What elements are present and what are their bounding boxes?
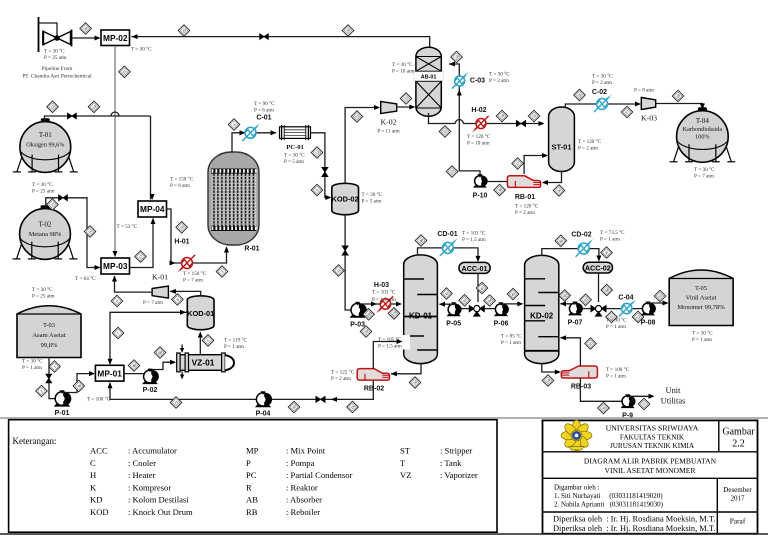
stream diamond 12	[311, 147, 323, 159]
stream diamond 52	[632, 311, 644, 323]
svg-text:1. Siti Nurhayati (0303118: 1. Siti Nurhayati (03031181419020)	[554, 492, 663, 500]
svg-text:Metana 98%: Metana 98%	[29, 231, 62, 238]
wire MP-01 to P-02	[124, 373, 144, 375]
svg-text:KD-01: KD-01	[409, 311, 433, 320]
wire K-02 to AB-01	[397, 106, 414, 108]
stream diamond 16b	[363, 309, 375, 321]
svg-text:T = 30 °C: T = 30 °C	[606, 317, 627, 324]
svg-text:Desember: Desember	[723, 486, 752, 494]
title university text	[606, 424, 699, 451]
svg-text:P = 2 atm: P = 2 atm	[592, 80, 612, 86]
svg-text:100%: 100%	[695, 134, 709, 141]
tank T-02 methane sphere	[13, 205, 78, 259]
svg-text:T = 85 °C: T = 85 °C	[501, 333, 522, 340]
title diagram name	[584, 457, 717, 476]
wire P-10 to C-03 to AB-01	[449, 64, 480, 175]
compressor K-02	[381, 102, 397, 114]
svg-text:CD-02: CD-02	[571, 232, 591, 239]
svg-text:T = 30 °C: T = 30 °C	[362, 191, 383, 198]
arrowhead into MP-02 right	[132, 34, 138, 39]
condensate outlet arrow VZ-01	[181, 372, 183, 377]
wire splitter to P-06	[485, 308, 496, 310]
svg-text:P-03: P-03	[350, 322, 365, 329]
label KOD-02 T/P	[362, 191, 383, 204]
wire MP-02 to MP-03	[114, 46, 116, 257]
wire RB-03 drain to P-9	[580, 378, 622, 401]
mix point MP-04	[138, 201, 167, 217]
stream diamond 40	[415, 235, 427, 247]
wire P-06 to KD-02	[501, 302, 522, 305]
title authors	[554, 484, 664, 509]
svg-text:K-03: K-03	[641, 114, 657, 123]
svg-text:Paraf: Paraf	[730, 517, 746, 526]
arrowhead into KOD-01 bottom	[198, 332, 203, 338]
stream diamond 7	[112, 327, 124, 339]
arrowhead up into C-03	[457, 90, 462, 96]
wire T-01 to MP-04	[45, 116, 151, 122]
arrowhead into KOD-02	[325, 195, 331, 200]
stream diamond 3b	[73, 380, 85, 392]
distillation column KD-01	[404, 255, 438, 364]
stream diamond 21	[170, 397, 182, 409]
title block frame	[543, 420, 758, 533]
arrowhead into K-03	[635, 101, 641, 106]
svg-text:P = 25 atm: P = 25 atm	[32, 188, 54, 194]
svg-text:P = 7 atm: P = 7 atm	[694, 173, 714, 179]
stream diamond 14	[88, 101, 100, 113]
arrowhead into K-02	[374, 105, 380, 110]
svg-text:T = 30 °C: T = 30 °C	[131, 46, 152, 53]
svg-text:T = 73,5 °C: T = 73,5 °C	[600, 229, 625, 236]
label Desember 2017	[723, 486, 752, 503]
svg-text:P = 6 atm: P = 6 atm	[170, 183, 190, 189]
svg-text:P = 1,5 atm: P = 1,5 atm	[372, 297, 396, 303]
svg-text:P = 1,5 atm: P = 1,5 atm	[378, 344, 402, 350]
svg-text:P = 2 atm: P = 2 atm	[515, 210, 535, 216]
svg-text:R: R	[246, 482, 252, 492]
stream diamond 8	[172, 294, 184, 306]
svg-text:T = 30 °C: T = 30 °C	[694, 166, 715, 173]
svg-text:P-06: P-06	[494, 321, 509, 328]
arrowhead into KD-02 right	[560, 301, 566, 306]
label T-02 T/P	[32, 286, 54, 299]
svg-text:: Stripper: : Stripper	[440, 446, 472, 456]
svg-text:Unit: Unit	[666, 386, 682, 395]
stream diamond 37	[512, 158, 524, 170]
heater H-02	[472, 116, 489, 133]
stripper ST-01	[549, 107, 575, 172]
svg-text:P-04: P-04	[256, 411, 271, 418]
svg-text:T = 30 °C: T = 30 °C	[592, 73, 613, 80]
wire P-05 to KD-01 reflux	[440, 303, 454, 304]
partial condenser PC-01	[280, 125, 311, 140]
wire KOD-01 to MP-01	[110, 312, 187, 364]
label CD-01 T/P	[462, 230, 486, 243]
compressor K-03	[641, 98, 655, 110]
svg-text:T = 64 °C: T = 64 °C	[75, 275, 96, 282]
mix point MP-02	[101, 30, 130, 46]
svg-text:: Heater: : Heater	[128, 470, 156, 480]
stream diamond 9b	[154, 347, 166, 359]
label Gambar 2.2	[722, 427, 755, 450]
label T-05 T/P	[692, 330, 713, 343]
svg-text:2.2: 2.2	[732, 439, 745, 450]
svg-text:Asam Asetat: Asam Asetat	[32, 332, 65, 339]
stream diamond 34	[496, 110, 508, 122]
wire RB-01 to P-10	[487, 181, 507, 183]
stream diamond 20	[288, 401, 300, 413]
wire KOD-02 bottoms to P-03	[345, 215, 351, 311]
label RB-03 T/P	[606, 366, 630, 379]
svg-text:P = 8 atm: P = 8 atm	[634, 88, 654, 94]
stream diamond 48	[601, 284, 613, 296]
arrowhead before H-03	[371, 301, 377, 306]
svg-text:VZ: VZ	[400, 470, 411, 480]
arrowhead into KOD-01 left	[180, 310, 186, 315]
stream diamond 10	[176, 222, 188, 234]
wire splitter to P-05	[460, 308, 470, 310]
svg-text:P-05: P-05	[446, 321, 461, 328]
arrowhead into KD-02 left	[517, 301, 523, 306]
svg-text:: Kolom Destilasi: : Kolom Destilasi	[128, 495, 189, 505]
mix point MP-03	[101, 258, 130, 274]
stream diamond 11	[333, 265, 345, 277]
wire MP-04 to H-01 to R-01	[167, 209, 227, 263]
svg-text:Pipeline From: Pipeline From	[42, 66, 74, 72]
svg-text:T = 30 °C: T = 30 °C	[44, 48, 65, 55]
svg-text:T = 90 °C: T = 90 °C	[254, 100, 275, 107]
accumulator ACC-02	[583, 262, 612, 273]
svg-text:Oksigen 99,6%: Oksigen 99,6%	[26, 142, 64, 149]
stream diamond 17b	[388, 308, 400, 320]
svg-text:P = 2 atm: P = 2 atm	[489, 78, 509, 84]
bottom page rule	[0, 533, 768, 535]
stream diamond 25	[446, 166, 458, 178]
stream diamond 46	[555, 235, 567, 247]
svg-text:C-02: C-02	[592, 89, 607, 96]
label C-04 T/P	[606, 317, 627, 330]
svg-text:T-03: T-03	[43, 322, 55, 329]
stream diamond 29	[178, 25, 190, 37]
stream diamond 5	[311, 184, 323, 196]
svg-text:T = 30 °C: T = 30 °C	[284, 152, 305, 159]
condenser CD-02	[576, 239, 594, 257]
svg-text:T = 120 °C: T = 120 °C	[515, 203, 539, 210]
stream diamond 4	[228, 119, 240, 131]
stream diamond 41	[476, 282, 488, 294]
wire VZ-01 to KOD-01	[199, 333, 201, 355]
svg-text:Keterangan:: Keterangan:	[13, 436, 57, 446]
arrowhead into ST-01 lower left	[542, 153, 548, 158]
label R-01 inlet T/P	[183, 270, 207, 283]
svg-text:C-04: C-04	[618, 295, 633, 302]
arrowhead into ACC-01	[475, 256, 480, 262]
svg-text:T = 53 °C: T = 53 °C	[117, 223, 138, 230]
arrowhead into ACC-02	[596, 256, 601, 262]
svg-text:P = 10 atm: P = 10 atm	[467, 140, 489, 146]
wire RB-01 vapor to ST-01	[524, 156, 547, 175]
stream diamond 6	[202, 335, 214, 347]
label AB-01 T/P	[392, 61, 414, 74]
svg-text:KD-02: KD-02	[530, 312, 554, 321]
svg-text:P = 11 atm: P = 11 atm	[377, 129, 399, 135]
pump P-02	[142, 369, 159, 385]
stream diamond 55	[585, 338, 597, 350]
svg-text:T = 100 °C: T = 100 °C	[87, 396, 111, 403]
svg-text:T = 103 °C: T = 103 °C	[462, 230, 486, 237]
label RB-02 T/P	[331, 369, 355, 382]
svg-text:: Vaporizer: : Vaporizer	[440, 470, 478, 480]
svg-text:KD: KD	[90, 495, 102, 505]
svg-text:P = 1 atm: P = 1 atm	[22, 365, 42, 371]
svg-text:P = 7 atm: P = 7 atm	[143, 300, 163, 306]
svg-text:P-07: P-07	[568, 320, 583, 327]
svg-text:P = 2 atm: P = 2 atm	[331, 376, 351, 382]
stream diamond 4b	[128, 360, 140, 372]
svg-text:P = 2 atm: P = 2 atm	[578, 145, 598, 151]
svg-text:Diperiksa oleh : Ir. Hj. Rosd: Diperiksa oleh : Ir. Hj. Rosdiana Moeksi…	[553, 524, 715, 533]
svg-text:P = 1 atm: P = 1 atm	[501, 340, 521, 346]
label pipeline T/P	[44, 48, 66, 61]
arrowhead into MP-01 bottom	[107, 382, 112, 388]
wire T-03 to P-01	[49, 358, 55, 399]
svg-text:: Mix Point: : Mix Point	[286, 446, 326, 456]
wire PC-01 to KOD-02	[311, 133, 331, 198]
svg-text:P: P	[246, 458, 251, 468]
stream diamond 19	[347, 401, 359, 413]
pump P-10	[473, 174, 488, 188]
svg-text:C: C	[90, 458, 96, 468]
pump P-03	[350, 302, 367, 318]
stream diamond 33	[439, 126, 451, 138]
wire P-01 to MP-01	[65, 374, 94, 393]
wire P-08 to T-05	[648, 301, 668, 304]
svg-text:PC: PC	[246, 470, 257, 480]
stream diamond 49	[559, 290, 571, 302]
svg-text:: Accumulator: : Accumulator	[128, 446, 177, 456]
svg-text:T = 30 °C: T = 30 °C	[489, 71, 510, 78]
svg-text:KOD-01: KOD-01	[187, 309, 214, 318]
legend box Keterangan	[9, 420, 497, 533]
svg-text:T-04: T-04	[696, 117, 709, 125]
wire P-9 to unit utilitas	[630, 395, 652, 396]
svg-text:P = 1,5 atm: P = 1,5 atm	[462, 237, 486, 243]
svg-text:ST-01: ST-01	[551, 143, 571, 152]
stream diamond 3	[216, 266, 228, 278]
pump P-05	[447, 302, 462, 316]
svg-text:T = 122 °C: T = 122 °C	[331, 369, 355, 376]
svg-text:: Pompa: : Pompa	[286, 458, 315, 468]
tank T-01 oxygen sphere	[13, 118, 78, 172]
svg-text:P = 5 atm: P = 5 atm	[284, 159, 304, 165]
label C-03 T/P	[489, 71, 510, 84]
svg-text:VINIL ASETAT MONOMER: VINIL ASETAT MONOMER	[605, 466, 697, 475]
svg-text:P = 1 atm: P = 1 atm	[224, 344, 244, 350]
svg-text:Vinil Asetat: Vinil Asetat	[686, 295, 717, 302]
svg-text:: Tank: : Tank	[440, 458, 462, 468]
arrowhead into MP-04 top	[150, 194, 155, 200]
arrowhead into KD-01 left	[396, 301, 402, 306]
svg-text:PT. Chandra Asri Petrochemical: PT. Chandra Asri Petrochemical	[22, 74, 92, 80]
wire P-02 to VZ-01	[152, 362, 175, 369]
arrowhead on H-01 feed	[170, 260, 176, 265]
tank T-03 acetic acid	[17, 306, 81, 358]
tank T-04 CO2 sphere	[670, 107, 736, 162]
svg-text:H-02: H-02	[471, 107, 486, 114]
arrowhead into KD-01 right	[439, 302, 445, 307]
arrowhead into MP-01 top	[107, 359, 112, 365]
arrowhead into RB-03 nozzle	[555, 369, 561, 374]
svg-text:P = 6 atm: P = 6 atm	[254, 107, 274, 113]
svg-text:Diperiksa oleh : Ir. Hj. Rosd: Diperiksa oleh : Ir. Hj. Rosdiana Moeksi…	[553, 515, 715, 524]
svg-text:MP-03: MP-03	[103, 261, 128, 271]
arrowhead into T-05	[663, 300, 669, 305]
wire AB-01 bottoms	[429, 113, 456, 124]
svg-text:P-08: P-08	[641, 320, 656, 327]
label ST-01 T/P	[578, 138, 602, 151]
svg-text:MP-04: MP-04	[140, 204, 165, 214]
arrowhead into MP-02 left	[95, 35, 101, 40]
label PC-01 T/P	[284, 152, 305, 165]
stream diamond 1	[49, 361, 61, 373]
svg-text:P = 25 atm: P = 25 atm	[44, 55, 66, 61]
pump P-04	[255, 391, 272, 407]
arrowhead into K-01 right	[170, 289, 176, 294]
svg-text:MP: MP	[246, 446, 259, 456]
line hop over MP-02 line	[111, 112, 119, 116]
reboiler RB-02	[357, 369, 389, 381]
absorber AB-01	[414, 47, 443, 116]
mix point MP-01	[95, 365, 124, 381]
arrowhead into T-04 top	[700, 104, 705, 110]
pump P-9	[621, 394, 636, 408]
stream diamond 53	[654, 290, 666, 302]
svg-text:AB: AB	[246, 495, 258, 505]
valve before ST-01	[516, 120, 525, 126]
wire ST-01 overhead to K-03	[565, 104, 639, 108]
svg-text:RB-02: RB-02	[364, 386, 384, 393]
title block row lines	[543, 420, 758, 533]
stream diamond 16	[84, 226, 96, 238]
label H-02 T/P	[467, 133, 491, 146]
arrowhead into VZ-01	[170, 360, 176, 365]
wire K-01 to MP-03	[115, 276, 153, 292]
svg-text:T = 30 °C: T = 30 °C	[392, 61, 413, 68]
label VZ-01 T/P	[224, 337, 248, 350]
wire KD-02 overhead to ACC-02	[542, 249, 599, 261]
svg-text:2. Nabila Aprianti (03031181: 2. Nabila Aprianti (03031181419030)	[554, 501, 664, 509]
svg-text:ACC-02: ACC-02	[585, 264, 611, 273]
wire to ST-01	[463, 123, 543, 125]
three-way valve below ACC-01	[469, 305, 485, 317]
distillation column KD-02	[525, 255, 559, 363]
label C-01 T/P	[254, 100, 275, 113]
wire MP-03 to MP-04	[130, 219, 154, 268]
svg-text:P-01: P-01	[55, 410, 70, 417]
svg-text:P = 25 atm: P = 25 atm	[32, 293, 54, 299]
label KD-01 feed T/P	[376, 335, 410, 350]
valve T-01 outlet	[68, 113, 77, 119]
legend column 3	[400, 446, 478, 481]
wire splitter2 to P-08	[607, 308, 643, 310]
wire KOD-01 top to K-01	[170, 291, 201, 296]
reboiler RB-01	[507, 176, 540, 188]
heater H-03	[376, 296, 393, 313]
stream diamond 23	[400, 93, 412, 105]
stream diamond 36	[553, 185, 565, 197]
svg-text:MP-02: MP-02	[103, 33, 128, 43]
stream diamond 44	[484, 295, 496, 307]
svg-text:Digambar oleh :: Digambar oleh :	[554, 484, 600, 492]
reboiler RB-03	[561, 366, 597, 378]
three-way valve below ACC-02	[591, 305, 607, 317]
wire splitter2 to P-07	[581, 308, 591, 310]
svg-text:T-02: T-02	[39, 221, 52, 229]
reactor R-01	[208, 152, 259, 245]
svg-text:Karbondioksida: Karbondioksida	[683, 126, 723, 133]
stream diamond 22	[351, 111, 363, 123]
svg-text:FAKULTAS TEKNIK: FAKULTAS TEKNIK	[620, 434, 685, 442]
svg-text:99,8%: 99,8%	[41, 342, 58, 349]
svg-text:T = 30 °C: T = 30 °C	[32, 286, 53, 293]
stream diamond 42	[441, 288, 453, 300]
svg-text:H-01: H-01	[174, 239, 189, 246]
wire P-03 to KD-01	[360, 303, 399, 306]
page separator line	[0, 417, 768, 419]
svg-text:T = 150 °C: T = 150 °C	[183, 270, 207, 277]
pipeline control valve	[43, 30, 72, 47]
arrowhead into KD-02 lower right	[560, 335, 566, 340]
arrowhead into RB-01 nozzle	[542, 180, 548, 185]
stream diamond 13	[47, 101, 59, 113]
svg-text:: Absorber: : Absorber	[286, 495, 322, 505]
knock out drum KOD-01	[187, 296, 214, 330]
pump P-07	[568, 302, 583, 316]
wire RB-02 vapor to KD-01	[373, 342, 401, 369]
svg-text:KOD-02: KOD-02	[332, 195, 359, 204]
label KD-02 feed T/P	[501, 333, 522, 346]
stream diamond 35	[528, 110, 540, 122]
svg-text:P-10: P-10	[473, 193, 488, 200]
arrowhead into ST-01 left	[539, 121, 545, 126]
pump P-06	[494, 302, 509, 316]
stream diamond 50	[580, 294, 592, 306]
svg-text:T = 100 °C: T = 100 °C	[606, 366, 630, 373]
wire KOD-02 to K-02	[345, 108, 378, 184]
tank T-05 vinyl acetate	[669, 270, 733, 326]
svg-text:PC-01: PC-01	[286, 144, 304, 151]
stream diamond 51	[606, 311, 618, 323]
wire pipeline inlet	[39, 23, 58, 36]
stream diamond 28b	[672, 90, 684, 102]
svg-text:K-01: K-01	[152, 273, 168, 282]
stream diamond 39	[360, 326, 372, 338]
arrowhead into PC-01	[271, 130, 277, 135]
hop over C-03 line	[455, 120, 463, 124]
wire KD-01 overhead to ACC-01	[418, 248, 479, 261]
valve T-03 outlet	[46, 374, 52, 383]
arrowhead before C-01	[240, 130, 246, 135]
wire KD-02 bottoms to RB-03	[542, 363, 560, 372]
arrowhead on recycle line	[331, 397, 337, 402]
wire KD-01 bottoms to RB-02	[391, 363, 421, 374]
legend column 2	[246, 446, 352, 518]
stream diamond 31	[119, 66, 131, 78]
svg-text:CD-01: CD-01	[437, 231, 457, 238]
cooler C-03	[452, 72, 469, 89]
stream diamond 38	[494, 184, 506, 196]
stream diamond 18	[409, 377, 421, 389]
